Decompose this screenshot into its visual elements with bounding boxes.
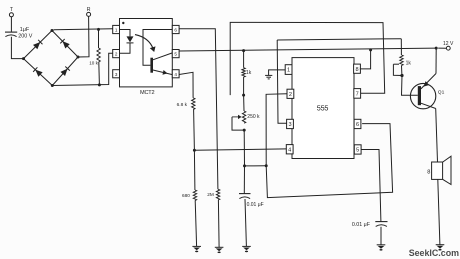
- wire timing node to 555 pin 6 (under chip): [266, 124, 392, 198]
- diode D4 (bottom-right): [60, 69, 67, 76]
- svg-text:2: 2: [115, 52, 118, 57]
- svg-text:8: 8: [355, 67, 358, 73]
- svg-text:Q1: Q1: [438, 90, 445, 96]
- wire bridge - output to opto pin 2: [52, 53, 112, 85]
- node pin 8 Vcc: [369, 48, 372, 51]
- capacitor C1 1uF 200V: [5, 31, 17, 33]
- svg-text:R: R: [87, 7, 91, 13]
- ground 2M: [215, 246, 224, 248]
- svg-text:6: 6: [174, 28, 177, 33]
- opto base wire to pin 6: [143, 30, 172, 66]
- opto LED anode wire: [120, 30, 131, 37]
- opto pin 1: [113, 25, 120, 33]
- wire control cap to ground: [380, 227, 382, 245]
- 1k pot wiper tie: [393, 63, 399, 65]
- node 1k/base: [400, 74, 403, 77]
- svg-text:8: 8: [427, 169, 430, 175]
- wire timing node to pin2 riser: [245, 165, 267, 167]
- node 250k wiper tie: [243, 129, 246, 132]
- bridge corner junctions: [22, 57, 25, 60]
- svg-text:0.01 μF: 0.01 μF: [352, 222, 371, 228]
- node 1k/250k/pin7: [242, 94, 245, 97]
- node 6.8k/680/pin4: [193, 149, 196, 152]
- 555 pin 3: [287, 119, 294, 128]
- ground speaker: [436, 244, 445, 246]
- svg-text:250 k: 250 k: [247, 114, 260, 120]
- opto LED cathode wire: [120, 43, 131, 53]
- terminal +12V: [438, 47, 446, 49]
- wire R terminal down to bridge right corner: [78, 16, 89, 57]
- Q1 collector (to speaker): [421, 103, 436, 108]
- svg-text:5: 5: [356, 148, 359, 154]
- node 1k top on +12V line: [242, 49, 245, 52]
- wire 1k bottom to node: [401, 66, 403, 76]
- node timing (cap/250k): [243, 164, 246, 167]
- svg-text:1: 1: [115, 28, 118, 33]
- speaker: [432, 162, 443, 179]
- diode D1 (left-top): [33, 42, 40, 49]
- capacitor 0.01uF timing: [243, 166, 245, 193]
- svg-text:10 k: 10 k: [89, 61, 98, 66]
- discharge rail pin7 over-route: [230, 22, 385, 95]
- svg-text:1: 1: [287, 68, 290, 74]
- 555 pin 5: [354, 145, 361, 154]
- opto emitter wire to pin 4 with arrow: [153, 70, 172, 75]
- wire T to capacitor: [10, 17, 12, 32]
- +12V supply line from opto pin 5 to terminal: [179, 48, 436, 51]
- opto LED: [127, 36, 134, 42]
- ground control cap: [377, 244, 386, 246]
- wire 555 pin 5 to control cap: [361, 150, 381, 222]
- pin-1 marker dot: [122, 22, 124, 24]
- svg-text:1μF: 1μF: [20, 27, 30, 33]
- diode D2 (right-top): [62, 41, 69, 48]
- resistor 1k (timer): [242, 68, 245, 77]
- svg-text:2M: 2M: [207, 192, 214, 197]
- wire speaker to ground: [438, 179, 440, 244]
- 555 pin 1: [285, 65, 292, 75]
- wire 555 pin 3 output riser: [277, 40, 286, 123]
- 555 output line to Q1 base network: [277, 39, 401, 40]
- wire 250k to timing node: [243, 130, 245, 166]
- wire output down to 1k pot: [400, 39, 402, 55]
- wire 10k top: [98, 29, 100, 48]
- node pin2 riser: [265, 164, 268, 167]
- svg-text:555: 555: [317, 104, 329, 113]
- wire 1k top: [243, 51, 245, 68]
- potentiometer 1k (base): [400, 55, 403, 66]
- wire capacitor to bridge left corner: [11, 37, 23, 59]
- svg-text:200 V: 200 V: [18, 33, 32, 39]
- diode D3 (bottom-left): [35, 70, 42, 77]
- opto pin 3: [113, 70, 120, 78]
- resistor 680: [193, 190, 196, 201]
- opto pin 6: [172, 25, 179, 33]
- wire bridge + output to opto pin 1 (top rail): [52, 29, 54, 32]
- 555 pin 6: [354, 119, 361, 128]
- terminal T: [9, 13, 13, 17]
- 555 pin 7: [354, 89, 361, 99]
- wire 2M to ground: [217, 200, 220, 247]
- opto pin 2: [113, 50, 120, 58]
- svg-text:4: 4: [174, 72, 177, 77]
- svg-text:1k: 1k: [246, 70, 252, 76]
- wire timing cap to ground: [245, 199, 246, 246]
- transistor Q1: [410, 83, 435, 108]
- opto pin 4: [172, 70, 179, 78]
- wire reset node to 555 pin 4: [194, 149, 286, 150]
- IC 555 body: [292, 58, 354, 159]
- svg-text:7: 7: [356, 92, 359, 98]
- svg-text:4: 4: [288, 147, 291, 153]
- terminal R: [87, 12, 91, 16]
- svg-text:SeekIC.com: SeekIC.com: [409, 248, 459, 258]
- ground timing cap: [242, 245, 251, 247]
- resistor 10k: [97, 48, 100, 62]
- wire 10k bottom: [98, 62, 101, 85]
- light arrow: [135, 35, 153, 49]
- wire 555 pin 8 to +12V: [360, 50, 371, 69]
- wire 1k bottom: [243, 77, 245, 95]
- opto collector wire to pin 5: [153, 53, 172, 60]
- svg-text:0.01 μF: 0.01 μF: [247, 202, 264, 208]
- Q1 emitter (to +12V) with PNP arrow: [421, 74, 436, 89]
- potentiometer 250k: [242, 111, 245, 123]
- capacitor 0.01uF control: [375, 221, 387, 223]
- resistor 2M: [216, 189, 219, 200]
- wire 6.8k to reset node: [193, 109, 196, 150]
- node 10k bottom: [98, 83, 101, 86]
- bridge rectifier diamond: [24, 31, 53, 59]
- wire 555 pin 1 to ground: [269, 70, 286, 75]
- opto pin 5: [172, 50, 179, 58]
- node Q1 emitter at +12V line: [435, 47, 438, 50]
- svg-text:1k: 1k: [406, 60, 412, 66]
- ground 555 pin 1: [265, 74, 272, 76]
- opto phototransistor base bar: [150, 58, 153, 73]
- svg-text:680: 680: [182, 193, 190, 198]
- 555 pin 2: [287, 89, 294, 98]
- svg-text:5: 5: [174, 52, 177, 57]
- svg-text:2: 2: [289, 92, 292, 98]
- wire node to Q1 base: [402, 76, 418, 96]
- svg-text:MCT2: MCT2: [140, 90, 155, 96]
- wire timing node to 555 pin 2: [266, 94, 287, 166]
- ground 680: [192, 245, 201, 247]
- wire node to 250k: [243, 95, 245, 111]
- svg-text:3: 3: [288, 122, 291, 128]
- svg-text:3: 3: [115, 72, 118, 77]
- wire opto pin 4 emitter to 6.8k: [179, 72, 193, 98]
- 555 pin 4: [286, 145, 293, 154]
- svg-text:12 V: 12 V: [443, 41, 454, 47]
- wire 680 to ground: [195, 201, 196, 247]
- svg-text:6: 6: [356, 122, 359, 128]
- svg-text:6.8 k: 6.8 k: [177, 102, 188, 108]
- node 10k top: [97, 28, 100, 31]
- resistor 6.8k: [192, 98, 195, 110]
- 250k wiper arrow: [232, 116, 239, 118]
- wire reset node to 680: [193, 150, 196, 190]
- optocoupler U1 MCT2 body: [120, 19, 173, 87]
- wire opto pin 6 to 2M (base pulldown): [179, 29, 218, 190]
- 555 pin 8: [354, 64, 361, 73]
